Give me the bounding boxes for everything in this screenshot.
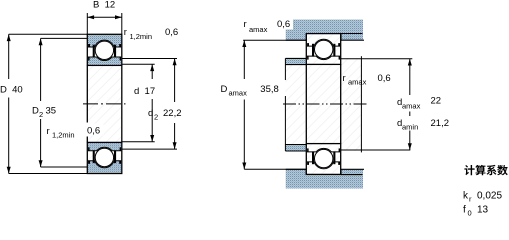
center line [83,103,126,105]
heading 计算系数 [464,165,507,175]
shaft shoulder bottom (blue) [285,145,306,152]
svg-text:amin: amin [402,123,418,132]
half outline [87,34,122,65]
bearing top half (outline style) [306,34,340,65]
dimension line B [87,16,122,18]
svg-text:amax: amax [348,78,367,87]
dimension d 17 [151,64,153,142]
cage bars [93,45,95,58]
dimension D 40 [8,34,10,173]
white bg for 0,6 top label [276,18,294,30]
svg-text:35,8: 35,8 [260,84,279,95]
svg-text:d: d [148,108,153,119]
housing bore line right (bottom) [341,174,363,176]
svg-text:22,2: 22,2 [163,108,182,119]
svg-text:D 40: D 40 [0,85,23,96]
svg-text:r: r [343,73,346,84]
svg-text:2: 2 [154,113,158,122]
svg-text:f: f [463,205,466,216]
svg-text:r: r [124,27,127,38]
housing bore line right (top) [341,33,363,35]
white bg for 0,6 bottom label [86,124,104,136]
inner ring blue [88,57,121,65]
svg-text:B 12: B 12 [93,0,115,11]
svg-text:21,2: 21,2 [431,118,450,129]
svg-text:2: 2 [39,110,43,119]
svg-text:amax: amax [402,102,421,111]
dimension Da max 35,8 [243,40,245,169]
dimension D2 35 [40,38,42,167]
shaft shoulder top (blue) [285,58,306,64]
inner ring groove boundary [88,57,121,61]
center line [283,103,367,105]
extension lines B [87,13,122,34]
dimension d2 22,2 [174,59,176,150]
svg-text:amax: amax [249,25,268,34]
svg-text:r: r [244,19,247,30]
hatch background of bearing section [306,34,340,175]
svg-text:r: r [47,126,50,137]
svg-text:amax: amax [229,89,248,98]
svg-text:0,025: 0,025 [477,191,502,202]
bearing top half [87,34,122,65]
housing top (blue) [286,20,363,41]
svg-text:0: 0 [468,209,472,218]
svg-text:22: 22 [431,96,442,107]
svg-text:13: 13 [477,205,489,216]
housing top outline [286,34,364,41]
bore lines [86,65,88,142]
svg-text:D: D [32,106,39,117]
svg-text:1,2min: 1,2min [52,131,75,140]
hatch background of shaft [285,58,361,151]
svg-text:0,6: 0,6 [277,19,290,30]
outer ring groove boundary [88,40,121,47]
svg-text:35: 35 [46,106,57,117]
bearing bottom half (mirror) [87,142,122,173]
hatch background of bearing section [87,34,122,173]
svg-text:0,6: 0,6 [87,126,100,137]
shaft break line [360,56,362,152]
svg-text:D: D [221,84,228,95]
dimension line da [409,59,411,150]
svg-text:1,2min: 1,2min [130,32,153,41]
svg-text:d 17: d 17 [134,86,155,97]
shaft shoulder face line [284,58,286,151]
bore lines [306,64,340,143]
ring face corner steps [88,44,90,47]
outer ring blue [88,35,121,47]
svg-text:0,6: 0,6 [165,27,178,38]
housing bottom outline [286,169,364,174]
svg-text:0,6: 0,6 [378,73,391,84]
dimension da: ext lines [341,58,413,60]
ball [95,41,113,59]
housing bottom (blue) [286,169,363,188]
